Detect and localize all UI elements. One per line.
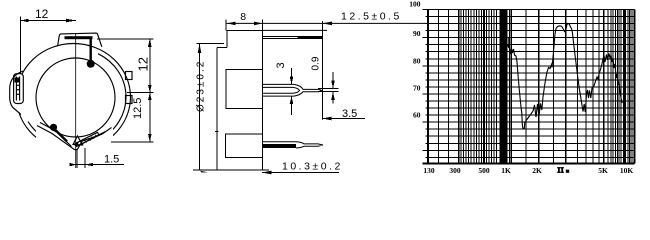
svg-text:1.5: 1.5 — [104, 154, 119, 166]
tab slot — [65, 36, 93, 39]
svg-text:12: 12 — [35, 7, 49, 21]
vertical extension at pin tip — [322, 21, 324, 120]
hatched strip — [75, 132, 99, 146]
tab thick end — [298, 36, 323, 39]
arrow bottom (down) — [148, 134, 152, 142]
svg-text:10K: 10K — [620, 166, 634, 175]
chart y-axis labels — [409, 0, 421, 119]
bracket zone eraser — [36, 125, 113, 153]
svg-text:10.3±0.2: 10.3±0.2 — [282, 160, 343, 172]
left clip body — [14, 74, 24, 104]
svg-text:3: 3 — [275, 62, 287, 68]
bracket triangle hole — [73, 136, 83, 145]
dense gridline band near 1K — [500, 10, 508, 164]
middle pin — [263, 84, 322, 96]
svg-text:90: 90 — [413, 29, 421, 38]
frequency response curve — [508, 23, 623, 128]
inner rect lower — [225, 134, 262, 157]
bottom bracket V inner — [40, 123, 106, 147]
body bottom — [193, 169, 269, 171]
leader from left dot to bracket apex — [55, 129, 68, 142]
chart x-axis labels — [423, 166, 633, 175]
dimension 1.5 (bottom) — [70, 148, 125, 168]
svg-text:130: 130 — [423, 166, 435, 175]
chart vertical gridlines — [427, 10, 429, 164]
dense gridline band near 8K — [623, 10, 626, 164]
dimension Ø23±0.2 — [196, 44, 225, 173]
dimension 3.5 — [323, 108, 366, 121]
svg-text:0.9: 0.9 — [311, 56, 322, 70]
arrow — [323, 22, 333, 26]
svg-text:2K: 2K — [532, 166, 542, 175]
dim line — [199, 44, 201, 170]
dim line — [70, 164, 124, 166]
extension top from tab — [97, 38, 154, 40]
svg-text:100: 100 — [409, 0, 421, 8]
rim tab lower-right — [126, 96, 133, 104]
dimension 0.9 — [311, 56, 339, 103]
top tab — [58, 33, 102, 47]
svg-text:12.5: 12.5 — [132, 98, 144, 119]
face circle — [36, 58, 115, 137]
left notch tick — [215, 131, 219, 133]
svg-text:70: 70 — [413, 83, 421, 92]
outer housing outline — [17, 44, 131, 151]
svg-text:3.5: 3.5 — [342, 108, 357, 120]
top extension — [197, 43, 225, 45]
svg-text:8: 8 — [240, 11, 246, 23]
chart x-axis label 3K (rendered as IIk glyph) — [557, 167, 569, 173]
clip zone eraser — [13, 74, 24, 112]
center line vertical — [75, 34, 77, 169]
left arrow — [70, 163, 77, 166]
dim line — [21, 20, 77, 22]
inner rect upper — [226, 70, 263, 109]
dimension 12 (right vertical) — [97, 39, 154, 142]
chart bottom axis — [423, 163, 635, 165]
extension from body top — [263, 29, 328, 31]
extension mid — [127, 92, 154, 94]
strip end arrow — [74, 141, 80, 147]
rim tab upper-right — [126, 72, 133, 80]
right arrow — [85, 163, 93, 166]
dim line — [323, 22, 428, 24]
bottom bracket V outer — [37, 126, 112, 150]
extension lines — [76, 149, 78, 168]
top tab side (double line) — [263, 36, 298, 37]
svg-text:12.5±0.5: 12.5±0.5 — [341, 11, 402, 23]
svg-text:1K: 1K — [501, 166, 511, 175]
dimension 8 (top) — [226, 11, 324, 31]
bottom arrow — [200, 170, 209, 173]
body left step — [217, 47, 227, 49]
extension bottom — [111, 141, 154, 143]
contact dot right — [87, 60, 95, 68]
svg-text:300: 300 — [449, 166, 461, 175]
chart horizontal gridlines — [423, 9, 635, 11]
body cap top — [227, 31, 263, 48]
svg-text:5K: 5K — [598, 166, 608, 175]
dim line — [149, 39, 151, 142]
svg-text:Ø23±0.2: Ø23±0.2 — [196, 60, 207, 112]
dimension 10.3±0.2 — [262, 160, 343, 174]
leader from slot to dot — [89, 39, 91, 61]
svg-text:12: 12 — [136, 57, 151, 71]
right arrow — [66, 19, 76, 23]
arrows middle — [148, 85, 152, 93]
inner housing outline (right arc) — [98, 54, 126, 140]
top arrow — [198, 44, 202, 54]
dimension 12 (top) — [21, 7, 77, 74]
svg-text:60: 60 — [413, 110, 421, 119]
hatch lines — [77, 135, 98, 146]
left arrow — [21, 19, 29, 23]
contact dot left — [50, 124, 57, 131]
left clip outer silhouette — [10, 71, 23, 115]
body right face — [262, 31, 264, 170]
inner housing outline (lower-left arc) — [28, 122, 43, 138]
left extension line — [20, 17, 22, 74]
dimension 12.5±0.5 — [263, 11, 428, 120]
bottom pin — [263, 142, 324, 148]
arrow top (up) — [148, 39, 152, 47]
body left edge — [216, 48, 218, 170]
dimension 3 — [275, 62, 293, 115]
svg-text:80: 80 — [413, 57, 421, 66]
svg-text:500: 500 — [478, 166, 490, 175]
